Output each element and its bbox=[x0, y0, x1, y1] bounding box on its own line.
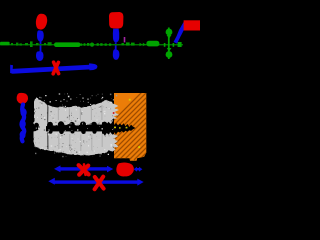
dimension R3 left arrowhead bbox=[48, 178, 55, 185]
yellow speck E bbox=[126, 127, 128, 129]
yellow speck A bbox=[129, 99, 131, 101]
dimension R2 red label bbox=[116, 162, 134, 176]
thread channel slit bbox=[46, 126, 104, 131]
marker M1 stem bbox=[40, 41, 42, 52]
optical axis line bbox=[0, 44, 183, 45]
axis tick labels group 1 bbox=[11, 41, 52, 47]
thread lobes top row bbox=[34, 121, 107, 127]
dimension R3 right arrowhead bbox=[137, 179, 143, 186]
marker M2 blue base bbox=[113, 49, 120, 60]
yellow speck B bbox=[138, 146, 140, 148]
lens L1 top ball bbox=[166, 29, 173, 36]
marker M2 blue head bbox=[113, 29, 119, 43]
dimension bar B1 red mark bbox=[53, 62, 58, 74]
dimension R1 red label bbox=[79, 164, 89, 174]
axis end cap bbox=[178, 42, 182, 47]
dark grain bbox=[34, 99, 114, 156]
vertical dimension V1 bulge c bbox=[20, 131, 26, 139]
vertical dimension V1 blue stroke bbox=[22, 105, 25, 142]
vertical dimension V1 bulge b bbox=[20, 120, 26, 128]
yellow speck D bbox=[119, 127, 121, 128]
axis overdraw at M2 stem bbox=[113, 44, 118, 45]
screw head bridge bbox=[39, 117, 47, 132]
thread channel black wedge bbox=[102, 122, 136, 136]
lens L1 vertical axis bbox=[168, 28, 170, 60]
dimension R2 right arrowhead bbox=[139, 167, 142, 172]
dimension R1 bar bbox=[60, 167, 110, 170]
dimension bar B1 bbox=[10, 65, 90, 74]
wall W1 orange hatched bbox=[74, 90, 249, 162]
dimension R2 left arrowhead bbox=[134, 167, 137, 172]
detector D1 red box bbox=[184, 20, 200, 30]
thread coil streaks lower bbox=[58, 134, 103, 151]
axis arrow glyph a bbox=[140, 43, 143, 47]
red speck bbox=[113, 112, 115, 114]
vertical dimension V1 red cap bbox=[17, 93, 28, 104]
marker M1 red balloon bbox=[36, 14, 47, 30]
dimension R3 bar bbox=[54, 180, 138, 183]
axis overdraw at M1 stem bbox=[38, 44, 43, 45]
head-shank separation slit bbox=[47, 104, 49, 124]
lens L1 top pointer bbox=[167, 35, 172, 39]
screw lower flank bbox=[34, 129, 119, 155]
thread coil streaks upper bbox=[58, 105, 103, 120]
lens L1 crossbar tick right bbox=[173, 43, 175, 47]
magenta tick bbox=[124, 37, 126, 42]
dimension R1 left arrowhead bbox=[54, 165, 61, 172]
axis arrow glyph b bbox=[143, 43, 146, 47]
beam path blue diagonal bbox=[174, 22, 187, 44]
axis squiggle labels group 3 bbox=[122, 42, 135, 45]
axis element segment S1 bbox=[0, 42, 10, 46]
dimension R2 bar bbox=[136, 168, 140, 170]
vertical dimension V1 bulge a bbox=[21, 108, 27, 116]
marker M1 blue base bbox=[36, 51, 44, 61]
thread lobes bottom row bbox=[48, 130, 106, 135]
yellow speck C bbox=[114, 127, 116, 129]
marker M2 stem bbox=[115, 42, 117, 49]
screw body group bbox=[34, 98, 119, 156]
screw upper flank bbox=[34, 98, 119, 126]
marker M1 blue head bbox=[37, 30, 44, 41]
axis element segment S3 bbox=[146, 41, 159, 47]
lens L1 crossbar tick left bbox=[164, 43, 166, 47]
dimension R1 right arrowhead bbox=[107, 166, 113, 173]
speckle noise bbox=[34, 93, 117, 157]
axis dot labels group 2 bbox=[80, 43, 111, 47]
dimension bar B1 arrowhead bbox=[89, 63, 97, 70]
dimension R3 red label bbox=[95, 177, 104, 190]
lens L1 down arrow bbox=[167, 48, 172, 52]
lens L1 bottom ball bbox=[166, 51, 173, 58]
axis element segment S2 bbox=[54, 42, 81, 47]
marker M2 red balloon bbox=[109, 12, 123, 29]
